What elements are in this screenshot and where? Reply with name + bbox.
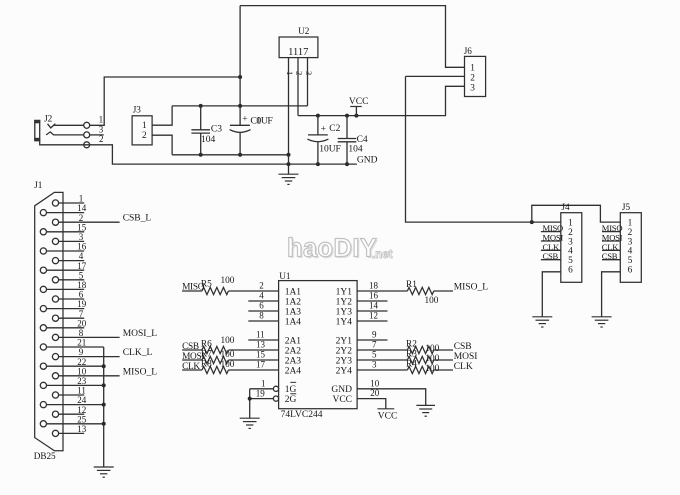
wire U1 pin6 stub [248,310,278,312]
svg-text:1A4: 1A4 [285,317,302,327]
power symbol VCC (top) [349,97,369,116]
wire J6 pin2 stub [406,75,465,77]
svg-text:7: 7 [79,309,84,319]
capacitor C4 value 104 [338,116,368,165]
svg-text:2Y1: 2Y1 [336,336,353,346]
resistor R7 100 (MOSI to U1 pin15) [182,349,279,363]
resistor R2 100 (U1 pin7 to CSB) [357,339,453,354]
svg-text:VCC: VCC [378,412,398,422]
svg-text:1A2: 1A2 [285,297,302,307]
svg-text:CSB: CSB [602,251,618,261]
svg-text:2: 2 [99,134,104,144]
wire U1 pin20 VCC [357,399,386,409]
svg-text:U2: U2 [298,26,310,36]
svg-text:2A1: 2A1 [285,336,302,346]
svg-text:+: + [321,125,326,135]
wire U2 pin2 (VOUT) down to VCC rail [297,58,299,116]
svg-text:3: 3 [79,232,84,242]
svg-text:1A1: 1A1 [285,287,302,297]
J1 pin 25 [40,414,103,427]
power symbol VCC (bottom) [377,409,397,422]
resistor R5 100 (MISO to U1 pin2) [182,276,279,295]
J1 pin 9 [52,347,119,360]
svg-text:20: 20 [370,388,380,398]
junction rail B at U2 pin1 column [287,162,291,166]
svg-text:74LVC244: 74LVC244 [281,410,323,420]
svg-text:20: 20 [77,318,87,328]
svg-text:16: 16 [77,242,87,252]
svg-text:17: 17 [77,261,87,271]
J1 pin 1 [52,194,84,206]
svg-text:25: 25 [77,414,87,424]
wire U2 pin1 (GND) down through rails to ground [288,58,290,175]
svg-text:10: 10 [370,378,380,388]
svg-text:MISO_L: MISO_L [123,367,158,377]
svg-text:J1: J1 [34,180,43,190]
svg-text:CLK: CLK [454,362,473,372]
svg-text:J5: J5 [622,202,631,212]
svg-text:GND: GND [331,385,352,395]
svg-text:11: 11 [256,330,265,340]
wire J4 pin3 stub [541,240,561,242]
svg-text:24: 24 [77,395,87,405]
wire U2 pin3 (VIN) down to VIN rail [307,58,309,106]
U1 pin names (inside labels) [285,287,353,405]
ground symbol below U2 [279,174,299,184]
svg-text:19: 19 [256,388,265,398]
svg-text:100: 100 [221,336,235,346]
svg-text:6: 6 [628,265,633,275]
wire VIN rail to U2 pin3 [172,105,307,107]
svg-text:10UF: 10UF [319,145,341,155]
junction rail B at C4 bottom [345,162,349,166]
wire U1 pin11 stub [248,339,278,341]
svg-text:1: 1 [470,64,475,74]
svg-text:+: + [242,114,247,124]
junction rail A at C1 bottom [238,153,242,157]
J1 pin 16 [40,242,86,254]
wire U1 pin19 enable to ground [250,389,279,418]
wire GND rail B (J2 sleeve to GND label) [40,141,357,164]
wire VIN: J3 pin1 to VIN rail [152,106,172,125]
svg-text:100: 100 [221,350,235,360]
decorative watermark haoDIY.net (background logo) [287,235,393,265]
wire U1 pin14 stub [357,310,387,312]
wire J5 pin4 stub [602,249,620,251]
J1 pin 18 [40,280,86,293]
svg-text:1Y1: 1Y1 [336,287,353,297]
J1 pin 3 [52,232,84,244]
svg-text:5: 5 [79,270,84,280]
wire U1 pin10 GND to ground [357,389,426,406]
junction VCC rail at C4 top [345,114,349,118]
svg-text:J4: J4 [561,202,570,212]
svg-text:100: 100 [425,354,439,364]
J1 pin 14 [40,203,86,216]
svg-text:12: 12 [77,405,86,415]
svg-text:MISO_L: MISO_L [454,282,489,292]
svg-text:CSB: CSB [543,251,559,261]
svg-text:haoDIY: haoDIY [287,235,377,263]
junction ground bus at pin 24 [102,403,106,407]
svg-text:R8: R8 [201,359,212,369]
svg-text:3: 3 [304,71,314,75]
svg-text:9: 9 [79,347,84,357]
J1 pin 2 [52,213,119,225]
junction VCC rail at VCC symbol [354,114,358,118]
svg-text:1: 1 [142,121,147,131]
svg-text:1: 1 [99,115,104,125]
svg-text:2: 2 [79,213,84,223]
J1 pin 7 [52,309,84,322]
junction rail A at C3 bottom [199,153,203,157]
svg-text:18: 18 [77,280,87,290]
J1 pin 15 [40,222,86,235]
ground symbol below J4 [532,317,552,327]
wire J5 pin5 stub [602,259,620,261]
svg-text:CLK: CLK [182,362,200,372]
ground symbol at U1 pin10 [416,405,435,416]
svg-text:R4: R4 [406,359,417,369]
wire J4 pin6 to ground [542,272,561,317]
J1 pin 10 [52,366,119,379]
svg-text:23: 23 [77,376,87,386]
J1 pin 8 [52,328,119,341]
wire U1 pin8 stub [248,320,278,322]
svg-text:12: 12 [369,311,378,321]
resistor R4 100 (U1 pin3 to CLK) [357,359,453,374]
J1 pin 17 [40,261,86,274]
svg-text:2Y4: 2Y4 [336,366,353,376]
junction VIN rail at C1 [238,104,242,108]
ground symbol below J5 [592,317,612,327]
J1 pin 6 [52,290,84,303]
svg-text:DB25: DB25 [34,451,56,461]
regulator U2 (1117) [279,26,318,58]
svg-text:17: 17 [256,360,266,370]
wire J4 pin2 stub [541,231,561,233]
resistor R3 100 (U1 pin5 to MOSI) [357,349,453,364]
svg-text:1Y4: 1Y4 [336,317,353,327]
svg-text:22: 22 [77,357,86,367]
svg-text:1A3: 1A3 [285,307,302,317]
svg-text:6: 6 [568,265,573,275]
resistor R1 100 (U1 pin18 to MISO_L) [357,280,453,306]
svg-text:21: 21 [77,338,86,348]
svg-text:CLK_L: CLK_L [123,348,153,358]
J1 pin 5 [52,270,84,283]
wire U1 pin9 stub [357,339,387,341]
svg-text:2: 2 [295,71,305,75]
junction VCC rail at C2 top [316,114,320,118]
svg-text:4: 4 [79,251,84,261]
svg-text:1Y3: 1Y3 [336,307,353,317]
svg-text:100: 100 [425,344,439,354]
wire J5 pin3 stub [602,240,620,242]
svg-text:104: 104 [348,145,363,155]
capacitor C3 value 104 [191,106,222,155]
resistor R8 100 (CLK to U1 pin17) [182,359,279,373]
junction rail B at C2 bottom [316,162,320,166]
J1 pin 22 [40,357,103,370]
wire U1 pin16 stub [357,300,387,302]
svg-text:R2: R2 [406,339,417,349]
J1 pin 24 [40,395,103,408]
svg-text:100: 100 [425,364,439,374]
svg-text:2A2: 2A2 [285,346,302,356]
connector J1 (DB25) [34,180,63,461]
ground symbol below U1 enables [240,418,260,428]
svg-text:CSB: CSB [454,342,472,352]
svg-text:14: 14 [77,203,87,213]
resistor R6 100 (CSB to U1 pin13) [182,336,279,354]
ground symbol below J1 [94,467,114,477]
svg-text:MOSI: MOSI [454,352,478,362]
wire GND: J3 pin2 to ground rail A [152,135,172,155]
connector J3 [132,104,152,145]
svg-text:100: 100 [425,296,439,306]
svg-text:2: 2 [259,281,264,291]
svg-text:3: 3 [470,83,475,93]
J1 pin 23 [40,376,103,389]
svg-text:VCC: VCC [349,97,369,107]
svg-text:10: 10 [77,366,87,376]
svg-text:C3: C3 [211,125,222,135]
connector J6 [464,46,486,97]
wire J4 pin5 stub [541,259,561,261]
wire MISO bridge from J4 over to J5 pin1 [532,205,621,222]
svg-text:R3: R3 [406,349,417,359]
junction VIN rail at C3 [199,104,203,108]
svg-text:9: 9 [372,330,377,340]
svg-text:GND: GND [357,155,378,165]
wire VIN: C1 column vertical (top rail to C1 top plate) [239,6,241,126]
junction ground bus at pin 22 [102,364,106,368]
junction MISO net at J4 branch [530,220,534,224]
wire VIN: top rail over to J6 pin1 [240,6,464,68]
svg-text:18: 18 [369,281,379,291]
J1 pin 12 [52,405,86,418]
connector J5 [620,202,641,282]
svg-text:19: 19 [77,299,87,309]
svg-text:MISO: MISO [182,282,205,292]
svg-text:3: 3 [372,360,377,370]
svg-text:6: 6 [79,290,84,300]
junction rail A at U2 pin1 [287,153,291,157]
svg-text:2: 2 [142,131,147,141]
wire J4 pin4 stub [541,249,561,251]
capacitor C2 (electrolytic) value 10UF [307,116,340,165]
connector J4 [561,202,582,282]
svg-text:13: 13 [77,424,87,434]
svg-text:13: 13 [256,340,266,350]
J1 pin 19 [40,299,86,312]
wire U1 pin12 stub [357,320,387,322]
svg-text:U1: U1 [279,271,291,281]
svg-text:J3: J3 [133,104,142,114]
wire U1 pin1 enable to ground [250,386,279,391]
wire J5 pin6 to ground [602,272,621,317]
wire J1 ground bus (pins 21-25) [103,347,105,467]
svg-text:8: 8 [79,328,84,338]
svg-text:100: 100 [221,360,235,370]
junction ground bus at pin 23 [102,383,106,387]
svg-text:VCC: VCC [332,395,352,405]
svg-text:2A3: 2A3 [285,356,302,366]
svg-text:11: 11 [77,386,86,396]
svg-text:C4: C4 [357,135,368,145]
svg-text:15: 15 [256,350,266,360]
connector J2 (power jack) [34,113,104,148]
wire MISO net: J6 pin2 down to J4 pin1 rail [406,76,561,222]
svg-text:R6: R6 [201,339,212,349]
svg-text:4: 4 [259,291,264,301]
svg-text:CSB_L: CSB_L [123,214,152,224]
wire U1 pin4 stub [248,300,278,302]
wire ground rail A (J3/C3/C1 bottoms to U2 pin1) [172,154,288,156]
svg-text:7: 7 [372,340,377,350]
svg-text:1Y2: 1Y2 [336,297,353,307]
svg-text:16: 16 [369,291,379,301]
svg-text:2G: 2G [285,395,297,405]
svg-text:1: 1 [285,71,295,75]
junction at enable tie [248,397,252,401]
wire J5 pin2 stub [602,231,620,233]
IC U1 74LVC244 body [279,271,358,420]
svg-text:100: 100 [221,276,235,286]
svg-text:8: 8 [259,311,264,321]
svg-text:2A4: 2A4 [285,366,302,376]
wire VIN: J2 pin1 up and over to C1 column [90,77,240,125]
svg-text:2Y2: 2Y2 [336,346,353,356]
J1 pin 20 [40,318,86,331]
svg-text:MOSI_L: MOSI_L [123,329,158,339]
svg-text:C0UF: C0UF [250,116,273,127]
svg-text:C2: C2 [329,124,340,134]
svg-text:1117: 1117 [288,47,308,58]
capacitor C1 (electrolytic) value 10UF [230,114,274,155]
svg-text:5: 5 [372,350,377,360]
svg-text:J2: J2 [44,113,53,123]
svg-text:104: 104 [201,135,216,145]
svg-text:.net: .net [372,249,393,261]
svg-text:6: 6 [259,301,264,311]
J1 pin 13 [52,424,86,437]
svg-text:R1: R1 [406,280,417,290]
wire VCC rail from U2 pin2 to J6 pin3 [298,86,465,115]
J1 pin 11 [52,386,85,399]
svg-text:1: 1 [261,379,266,389]
svg-text:CSB: CSB [182,342,199,352]
svg-text:1: 1 [79,194,84,204]
svg-text:2Y3: 2Y3 [336,356,353,366]
svg-text:1: 1 [256,116,261,127]
svg-text:J6: J6 [464,46,473,56]
svg-text:15: 15 [77,222,87,232]
junction ground bus at pin 25 [102,422,106,426]
svg-text:2: 2 [470,74,475,84]
junction VIN at C1 top column [238,75,242,79]
J1 pin 4 [52,251,84,264]
svg-text:14: 14 [369,301,379,311]
J1 pin 21 [40,338,103,351]
